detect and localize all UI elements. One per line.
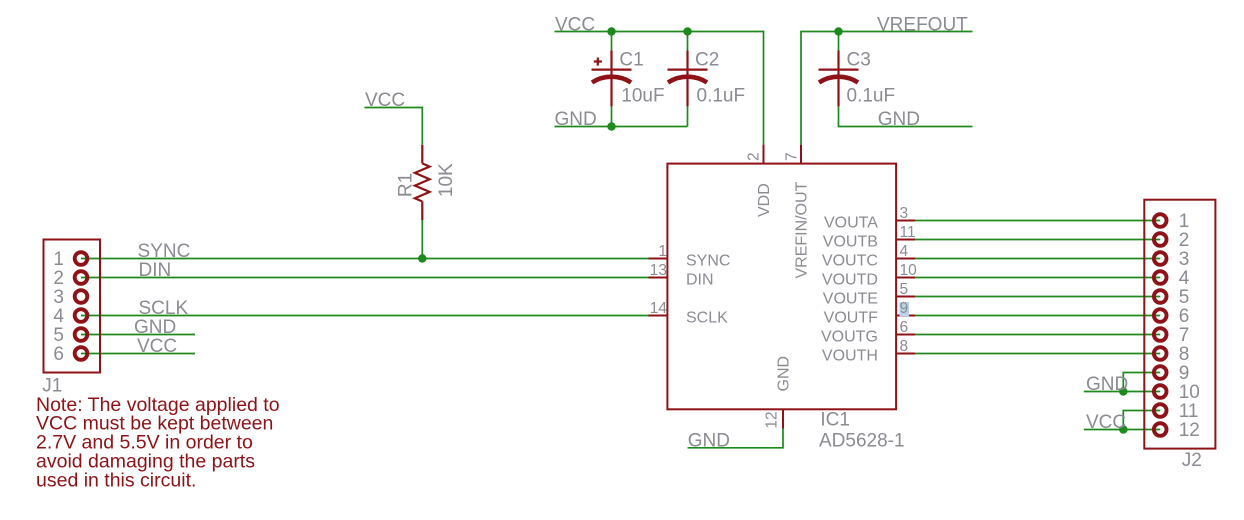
svg-text:1: 1	[658, 243, 667, 260]
svg-text:VOUTC: VOUTC	[822, 253, 878, 270]
svg-text:VOUTH: VOUTH	[822, 348, 878, 365]
svg-text:5: 5	[53, 325, 64, 346]
svg-text:8: 8	[900, 338, 909, 355]
svg-text:SYNC: SYNC	[686, 253, 730, 270]
svg-text:7: 7	[1179, 325, 1190, 346]
svg-text:VOUTA: VOUTA	[824, 215, 878, 232]
svg-text:3: 3	[1179, 249, 1190, 270]
svg-text:10uF: 10uF	[621, 85, 664, 106]
svg-text:4: 4	[53, 306, 64, 327]
svg-text:SYNC: SYNC	[138, 241, 191, 262]
svg-text:VOUTB: VOUTB	[823, 234, 878, 251]
svg-text:AD5628-1: AD5628-1	[819, 430, 905, 451]
svg-text:2: 2	[1179, 230, 1190, 251]
svg-text:GND: GND	[134, 317, 176, 338]
svg-text:10K: 10K	[436, 163, 457, 197]
svg-text:VOUTG: VOUTG	[821, 329, 878, 346]
svg-text:used in this circuit.: used in this circuit.	[36, 470, 196, 492]
svg-text:10: 10	[1179, 382, 1200, 403]
svg-text:C2: C2	[695, 50, 719, 71]
svg-text:9: 9	[1179, 363, 1190, 384]
svg-text:2: 2	[746, 152, 763, 161]
svg-text:12: 12	[764, 411, 781, 428]
svg-text:SCLK: SCLK	[139, 298, 189, 319]
svg-text:DIN: DIN	[139, 260, 172, 281]
svg-text:10: 10	[900, 262, 918, 279]
svg-text:4: 4	[1179, 268, 1190, 289]
svg-text:13: 13	[650, 262, 667, 279]
svg-text:IC1: IC1	[820, 410, 850, 431]
svg-text:R1: R1	[395, 173, 416, 197]
svg-text:1: 1	[1179, 211, 1190, 232]
svg-text:GND: GND	[878, 109, 920, 130]
svg-text:VREFOUT: VREFOUT	[877, 14, 968, 35]
svg-text:11: 11	[1179, 401, 1199, 422]
svg-text:4: 4	[900, 243, 909, 260]
svg-text:GND: GND	[555, 109, 597, 130]
svg-text:11: 11	[900, 224, 916, 241]
svg-text:6: 6	[1179, 306, 1190, 327]
svg-text:9: 9	[900, 300, 909, 317]
svg-text:7: 7	[783, 152, 800, 161]
svg-text:14: 14	[650, 300, 668, 317]
svg-text:VOUTE: VOUTE	[823, 291, 878, 308]
svg-text:8: 8	[1179, 344, 1190, 365]
svg-text:SCLK: SCLK	[686, 310, 728, 327]
svg-text:5: 5	[900, 281, 909, 298]
svg-text:0.1uF: 0.1uF	[697, 85, 746, 106]
svg-text:12: 12	[1179, 420, 1200, 441]
svg-text:VDD: VDD	[756, 183, 773, 217]
svg-text:0.1uF: 0.1uF	[847, 85, 896, 106]
svg-text:VCC: VCC	[365, 90, 405, 111]
svg-text:6: 6	[900, 319, 909, 336]
svg-text:C3: C3	[847, 50, 871, 71]
svg-text:VREFIN/OUT: VREFIN/OUT	[793, 181, 810, 278]
svg-text:GND: GND	[775, 356, 792, 392]
svg-text:6: 6	[53, 344, 64, 365]
svg-text:VOUTD: VOUTD	[822, 272, 878, 289]
svg-text:3: 3	[900, 205, 909, 222]
svg-text:3: 3	[53, 287, 64, 308]
svg-text:GND: GND	[1086, 374, 1128, 395]
svg-text:VCC: VCC	[1086, 412, 1126, 433]
svg-text:VCC: VCC	[555, 14, 595, 35]
svg-text:2: 2	[53, 268, 64, 289]
svg-text:5: 5	[1179, 287, 1190, 308]
svg-text:VCC: VCC	[137, 336, 177, 357]
svg-text:VOUTF: VOUTF	[824, 310, 878, 327]
svg-text:J2: J2	[1182, 450, 1202, 471]
svg-text:DIN: DIN	[686, 272, 714, 289]
svg-text:1: 1	[53, 249, 64, 270]
svg-text:C1: C1	[619, 50, 643, 71]
svg-text:GND: GND	[688, 430, 730, 451]
